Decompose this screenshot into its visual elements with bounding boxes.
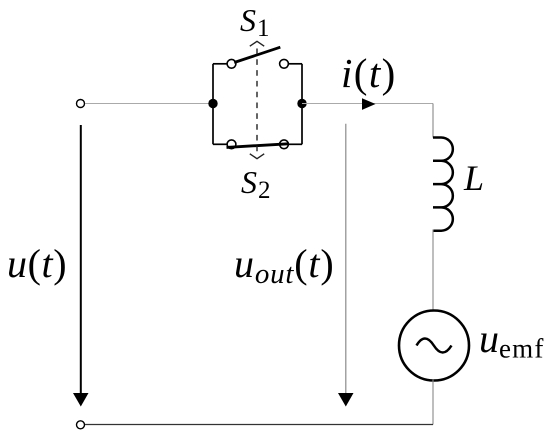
- link arrowhead up: [250, 41, 264, 46]
- switch block left vertical: [212, 64, 214, 145]
- node right junction: [297, 99, 306, 108]
- svg-text:uemf: uemf: [479, 316, 545, 364]
- switch S1 left contact: [227, 59, 236, 68]
- voltage arrow u(t): [80, 125, 82, 400]
- svg-text:L: L: [463, 158, 484, 198]
- terminal bottom-left: [77, 421, 85, 429]
- current arrow i(t): [362, 98, 376, 110]
- svg-text:u(t): u(t): [7, 241, 67, 286]
- wire: right vertical bottom: [432, 380, 434, 425]
- switch S2 right contact: [280, 140, 289, 149]
- wire: right vertical middle: [432, 230, 434, 311]
- wire: switch block to right corner: [302, 103, 433, 105]
- svg-text:S2: S2: [241, 164, 271, 204]
- switch block right vertical: [301, 64, 303, 145]
- terminal top-left: [77, 100, 85, 108]
- wire: top branch right stub: [287, 63, 302, 65]
- AC source sine symbol: [417, 339, 452, 353]
- voltage arrow u_out(t): [345, 124, 347, 398]
- wire: top-left terminal to switch block: [85, 103, 213, 105]
- wire: bottom branch left stub: [213, 143, 228, 145]
- svg-text:S1: S1: [240, 2, 270, 42]
- link arrowhead down: [250, 154, 264, 159]
- switch S1 right contact: [280, 59, 289, 68]
- wire: top branch left stub: [213, 63, 228, 65]
- svg-text:uout(t): uout(t): [234, 241, 334, 290]
- AC source u_emf circle: [399, 311, 469, 381]
- svg-text:i(t): i(t): [341, 50, 397, 96]
- switch S1 blade (open): [234, 47, 280, 62]
- wire: bottom branch right stub: [287, 143, 302, 145]
- inductor L: [433, 138, 453, 231]
- node left junction: [208, 99, 217, 108]
- mechanical link dashed line: [256, 49, 258, 155]
- switch S2 left contact: [227, 140, 236, 149]
- wire: right vertical top: [432, 104, 434, 138]
- wire: bottom: [85, 424, 433, 426]
- switch S2 blade (closed): [227, 144, 289, 148]
